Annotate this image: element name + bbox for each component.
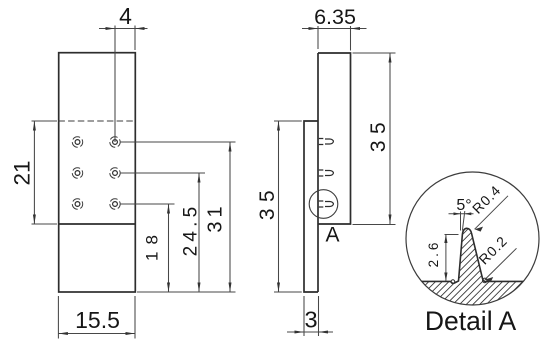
svg-text:3: 3 [304,307,317,333]
angle 5 degrees [449,211,474,231]
groove radius circle right [483,278,488,283]
svg-text:15.5: 15.5 [75,307,120,333]
svg-text:4: 4 [119,3,132,29]
tapped hole A2 [110,137,120,147]
dimension 3 (bottom) [287,296,333,336]
dimension 6.35 (top) [302,26,367,51]
detail boundary circle [406,172,539,305]
svg-text:35: 35 [256,184,279,220]
dimension 18 (right) [120,204,175,292]
groove radius circle left [451,280,455,284]
dimension 24.5 (right) [120,173,205,292]
leader R0.4 [475,196,508,229]
front view outline [58,53,135,292]
tapped hole C2 [110,199,120,209]
tapped hole C1 [72,199,82,209]
thread side symbol 3 [319,201,334,207]
dimension 21 (left) [32,121,58,224]
dimension 4 (top) [99,26,148,143]
thread side symbol 2 [319,170,334,176]
svg-text:A: A [325,223,339,246]
svg-text:35: 35 [367,116,390,152]
svg-text:2.6: 2.6 [426,240,441,268]
svg-text:31: 31 [205,202,227,232]
detail callout circle A [309,190,338,219]
tapped hole B1 [72,168,82,178]
svg-text:21: 21 [9,160,34,185]
dimension 15.5 (bottom) [58,296,135,339]
hidden edge (dashed) [58,120,135,122]
tapped hole A1 [72,137,82,147]
svg-text:24.5: 24.5 [181,203,202,257]
svg-text:Detail A: Detail A [425,306,517,336]
svg-text:6.35: 6.35 [314,5,356,29]
side view outline [304,53,351,292]
dimension 35 (left of side view) [274,121,302,292]
ground surface and tooth profile [405,228,540,283]
thread side symbol 1 [319,139,334,145]
leader R0.2 [485,248,517,279]
dimension 35 (right of side view) [353,53,396,225]
svg-text:18: 18 [143,228,162,261]
section hatching [385,212,550,312]
tapped hole B2 [110,168,120,178]
dimension 31 (right) [120,142,236,292]
dimension 2.6 [445,235,459,282]
